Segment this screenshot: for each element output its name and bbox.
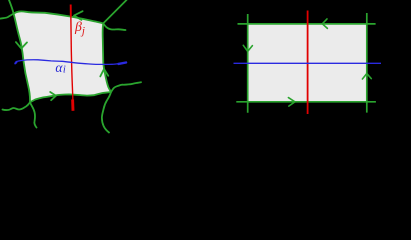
green top-edge curve (with extensions past corners) bbox=[0, 11, 126, 30]
arrow on bottom edge of square (pointing right) bbox=[288, 98, 295, 107]
right square: gray fill bbox=[248, 24, 367, 102]
red curve beta_j bbox=[71, 5, 73, 101]
blue curve alpha_i bbox=[15, 60, 126, 65]
blue curve right end thick tip bbox=[119, 63, 127, 64]
red curve beta_j thicker top tick bbox=[70, 5, 72, 17]
right square: green bottom edge bbox=[236, 101, 376, 103]
arrow on right edge (pointing up) bbox=[100, 69, 108, 76]
arrow on right edge of square (pointing up) bbox=[362, 74, 371, 80]
arrow on bottom edge (pointing right) bbox=[50, 92, 56, 100]
arrow on top edge (pointing left) bbox=[74, 11, 83, 20]
arrow on top edge of square (pointing left) bbox=[322, 19, 327, 29]
blue curve left end hook bbox=[15, 63, 17, 64]
red vertical line in square bbox=[307, 11, 309, 115]
right square: green right edge bbox=[366, 13, 368, 113]
left curvilinear square: gray fill region bbox=[14, 11, 111, 102]
right square: green left edge bbox=[247, 14, 249, 113]
green left-edge curve (with extensions past corners) bbox=[9, 0, 37, 128]
green bottom-edge curve (with extensions past corners) bbox=[3, 82, 142, 110]
blue horizontal line in square bbox=[234, 62, 382, 64]
arrow on left edge (pointing down) bbox=[16, 42, 27, 48]
arrow on left edge of square (pointing down) bbox=[243, 45, 252, 51]
green right-edge curve (with extensions past corners) bbox=[102, 0, 127, 133]
red curve beta_j thick lower tip bbox=[71, 100, 74, 111]
right square: green top edge bbox=[238, 23, 376, 25]
